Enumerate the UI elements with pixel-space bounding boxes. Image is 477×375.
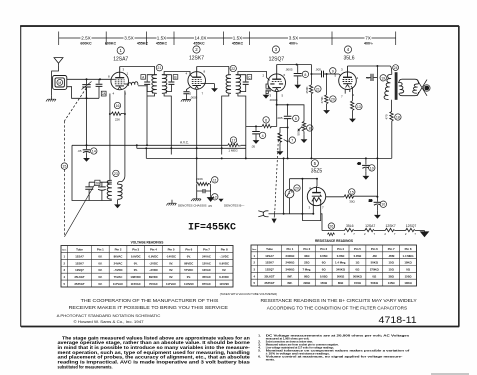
wire tuning bottom — [67, 87, 99, 99]
svg-text:12SA7: 12SA7 — [113, 57, 128, 63]
part circle 16 — [114, 102, 120, 108]
svg-text:10: 10 — [370, 166, 374, 170]
svg-text:12SA7: 12SA7 — [75, 254, 84, 258]
svg-text:4: 4 — [262, 134, 264, 138]
ground arrow volume — [301, 135, 308, 143]
svg-text:© Howard W. Sams & Co., Inc. 1: © Howard W. Sams & Co., Inc. 1947 — [74, 320, 144, 324]
svg-text:0.05Ω: 0.05Ω — [320, 274, 328, 278]
filter capacitor C10 — [357, 158, 369, 171]
part circle 12 — [212, 194, 218, 200]
wire tube1 plate to IF1 — [120, 67, 155, 75]
svg-text:38Ω: 38Ω — [389, 274, 395, 278]
svg-text:15: 15 — [62, 165, 66, 169]
svg-text:12VAC: 12VAC — [202, 268, 211, 272]
wire IF2 secondary to tube3 grid — [238, 72, 267, 78]
tube 12SK7 V2 — [188, 67, 215, 90]
svg-text:0V.: 0V. — [98, 275, 102, 279]
svg-text:Pin 1: Pin 1 — [286, 247, 293, 251]
resistor R15 filter — [326, 196, 344, 198]
svg-text:Pin 8: Pin 8 — [405, 247, 412, 251]
svg-text:1 MEG: 1 MEG — [228, 149, 238, 153]
svg-text:455KC: 455KC — [232, 41, 244, 45]
resistor R17 1meg AVC — [228, 144, 241, 147]
part circle 4 — [259, 132, 265, 138]
svg-text:.02: .02 — [366, 76, 371, 80]
ground arrow cathode — [349, 114, 356, 122]
part label box B — [173, 75, 178, 80]
part circle 15 gang — [61, 163, 67, 169]
svg-text:21: 21 — [157, 66, 161, 70]
wire tube2 heater return — [196, 89, 198, 181]
part label box 2A — [101, 91, 106, 96]
heater 12SQ7 — [406, 228, 425, 231]
svg-text:INF.: INF. — [287, 281, 292, 285]
part circle 13 — [356, 103, 362, 109]
border frame — [21, 26, 459, 326]
svg-text:24VAC: 24VAC — [114, 261, 123, 265]
oscillator variable capacitor C1C — [85, 182, 93, 200]
resistor R18 primary return — [390, 100, 393, 159]
svg-text:0V.: 0V. — [134, 261, 138, 265]
svg-text:B: B — [174, 75, 176, 79]
svg-text:Pin 1: Pin 1 — [97, 247, 104, 251]
svg-text:6.: 6. — [258, 354, 261, 358]
wire IF1 bottoms down — [147, 86, 155, 146]
svg-text:VOLTAGE READINGS: VOLTAGE READINGS — [131, 241, 164, 245]
ground arrow tube2 cathode — [211, 84, 218, 92]
oscillator coil L2 cathode — [128, 82, 147, 86]
svg-text:87VAC: 87VAC — [202, 282, 211, 286]
svg-text:35Z5: 35Z5 — [311, 169, 323, 175]
part circle 18 — [395, 114, 401, 120]
svg-text:0.9VDC: 0.9VDC — [149, 254, 159, 258]
svg-text:RESISTANCE READINGS: RESISTANCE READINGS — [315, 239, 353, 243]
svg-text:455KC: 455KC — [193, 41, 205, 45]
svg-text:2B: 2B — [95, 181, 100, 185]
capacitor C4 grid — [252, 126, 260, 135]
svg-text:340KΩ: 340KΩ — [285, 267, 295, 271]
svg-text:250K: 250K — [305, 86, 309, 93]
part circle 14 — [91, 148, 97, 154]
part label box C — [247, 75, 252, 80]
svg-text:80Ω: 80Ω — [304, 274, 310, 278]
svg-text:2.5X: 2.5X — [81, 36, 90, 41]
part label box A — [141, 75, 146, 80]
svg-text:57VDC: 57VDC — [184, 268, 193, 272]
legend B- symbol — [207, 196, 213, 202]
svg-text:12SK7: 12SK7 — [75, 261, 84, 265]
svg-text:12SQ7: 12SQ7 — [406, 224, 417, 228]
svg-text:20: 20 — [331, 98, 335, 102]
svg-text:600KC: 600KC — [105, 41, 117, 45]
oscillator coil L3 — [107, 180, 122, 199]
svg-text:0.05Ω: 0.05Ω — [320, 254, 328, 258]
svg-text:8: 8 — [304, 73, 306, 77]
svg-text:50KΩ: 50KΩ — [371, 261, 379, 265]
svg-text:12SQ7: 12SQ7 — [265, 267, 274, 271]
svg-text:455KC: 455KC — [156, 41, 168, 45]
svg-text:15Ω: 15Ω — [389, 267, 395, 271]
svg-text:DENOTES B—: DENOTES B— — [224, 204, 244, 208]
legend network R11 220K — [197, 181, 211, 196]
svg-text:150Ω: 150Ω — [405, 274, 413, 278]
filament string wire — [322, 230, 345, 232]
part circle 7 — [307, 125, 313, 131]
svg-text:16: 16 — [116, 104, 120, 108]
wire tube2 plate to IF2 — [197, 67, 229, 75]
svg-text:470: 470 — [385, 114, 389, 119]
svg-text:115VAC: 115VAC — [131, 282, 141, 286]
svg-text:6: 6 — [265, 118, 267, 122]
capacitor C8 .0005 plate bypass — [294, 65, 302, 81]
ground arrow filter cap — [363, 171, 370, 179]
AC plug — [258, 211, 283, 217]
wire tube3 plate line — [277, 64, 312, 66]
B minus arrow end of string — [421, 231, 429, 237]
wire to output grid — [311, 73, 321, 75]
svg-text:14.0X: 14.0X — [194, 36, 206, 41]
svg-text:.005: .005 — [315, 68, 321, 72]
heater 12SK7 — [385, 228, 405, 231]
svg-text:22: 22 — [231, 67, 235, 71]
svg-text:THE COOPERATION OF THE MAN: THE COOPERATION OF THE MANUFACTURER OF T… — [81, 298, 219, 304]
svg-text:(TAKEN WITH VACUUM TUBE VOLTME: (TAKEN WITH VACUUM TUBE VOLTMETER) — [220, 292, 278, 296]
resistance readings table — [251, 245, 417, 286]
IF transformer T1 — [152, 75, 167, 94]
svg-text:340KΩ: 340KΩ — [336, 267, 346, 271]
wire B bus drop left — [283, 158, 285, 213]
svg-text:86VAC: 86VAC — [114, 254, 123, 258]
wire tube3 diode out — [277, 92, 304, 122]
svg-text:22Ω: 22Ω — [304, 261, 310, 265]
wire grid resistor line — [246, 125, 262, 127]
ground arrow tube3 diode — [263, 90, 270, 98]
svg-text:0.9VDC: 0.9VDC — [131, 254, 141, 258]
svg-text:0V.: 0V. — [134, 268, 138, 272]
svg-text:0V.: 0V. — [98, 268, 102, 272]
part circle 17 — [230, 137, 236, 143]
tube callout 4 — [343, 46, 354, 62]
svg-text:Pin 4: Pin 4 — [150, 247, 157, 251]
svg-text:35L6: 35L6 — [343, 56, 354, 62]
svg-text:0V.: 0V. — [98, 254, 102, 258]
B+ bus main — [146, 157, 391, 159]
part circle 6 — [263, 117, 269, 123]
output transformer T3 — [384, 74, 392, 99]
stage gain paragraph — [58, 335, 251, 369]
svg-text:1.5X: 1.5X — [157, 36, 166, 41]
svg-text:Pin 3: Pin 3 — [320, 247, 327, 251]
part circle 22 IF2 — [230, 65, 236, 71]
svg-text:117VAC: 117VAC — [113, 282, 123, 286]
svg-text:Item: Item — [252, 248, 256, 251]
svg-text:Pin 3: Pin 3 — [132, 247, 139, 251]
svg-text:12SA7: 12SA7 — [365, 224, 375, 228]
svg-text:40: 40 — [357, 162, 361, 166]
resistor R13 cathode 150 — [351, 88, 354, 114]
svg-text:ments.: ments. — [266, 358, 275, 362]
ground arrow filter cap 2 — [374, 210, 381, 218]
svg-text:Pin 6: Pin 6 — [371, 247, 378, 251]
svg-text:Tube: Tube — [76, 247, 83, 251]
svg-text:.05: .05 — [208, 204, 213, 208]
svg-text:0V.: 0V. — [98, 282, 102, 286]
tube callout 5 — [311, 160, 323, 175]
svg-text:DENOTES CHASSIS: DENOTES CHASSIS — [178, 204, 207, 208]
svg-text:19: 19 — [381, 76, 385, 80]
svg-text:18: 18 — [396, 116, 400, 120]
svg-text:24VAC: 24VAC — [202, 254, 211, 258]
svg-text:A.V.C.: A.V.C. — [180, 141, 189, 145]
wire antenna lead — [52, 65, 59, 95]
loop antenna L1 — [53, 76, 67, 90]
ground arrow volume pot — [277, 147, 284, 155]
svg-text:IF=455KC: IF=455KC — [188, 223, 236, 234]
part circle 10 — [369, 165, 375, 171]
node tuning junction — [86, 97, 88, 99]
svg-text:8: 8 — [309, 127, 311, 131]
svg-text:0V.: 0V. — [169, 275, 173, 279]
svg-text:.05M: .05M — [388, 254, 395, 258]
svg-text:1.5X: 1.5X — [233, 36, 242, 41]
svg-text:1.4 Meg.: 1.4 Meg. — [335, 261, 346, 265]
svg-text:.005: .005 — [277, 116, 283, 120]
plate load resistor R21 — [309, 65, 312, 159]
part circle 11 — [212, 177, 218, 183]
tube 35Z5 V5 — [307, 186, 325, 206]
svg-text:400∿: 400∿ — [289, 41, 299, 45]
svg-text:12SK7: 12SK7 — [189, 56, 204, 62]
svg-text:32Ω: 32Ω — [304, 254, 310, 258]
svg-text:5: 5 — [295, 117, 297, 121]
svg-text:35Z5GT: 35Z5GT — [264, 281, 275, 285]
svg-text:150Ω: 150Ω — [320, 281, 328, 285]
svg-text:-14VDC: -14VDC — [166, 254, 176, 258]
svg-text:15Ω: 15Ω — [389, 261, 395, 265]
svg-text:35VAC: 35VAC — [202, 275, 211, 279]
capacitor C9 coupling to 35L6 — [322, 71, 340, 78]
wire B+ feed vertical — [376, 66, 378, 198]
svg-text:Pin 5: Pin 5 — [168, 247, 175, 251]
svg-text:6.4VDC: 6.4VDC — [219, 275, 229, 279]
svg-text:86VDC: 86VDC — [184, 261, 193, 265]
svg-text:RECEIVER MAKES IT POSSIBLE TO: RECEIVER MAKES IT POSSIBLE TO BRING YOU … — [69, 305, 229, 311]
svg-text:-.5VDC: -.5VDC — [113, 268, 122, 272]
capacitor C14 osc pad — [83, 145, 91, 153]
part label box 2B — [95, 180, 100, 185]
part circle 8 — [302, 71, 308, 77]
part circle 21 IF1 — [156, 65, 162, 71]
svg-text:A PHOTOFACT STANDARD NOTATIO: A PHOTOFACT STANDARD NOTATION SCHEMATIC — [57, 313, 161, 318]
notes list — [258, 333, 410, 361]
svg-text:0V.: 0V. — [169, 268, 173, 272]
svg-text:17: 17 — [232, 139, 236, 143]
svg-text:10: 10 — [381, 203, 385, 207]
speaker voice coil loop — [399, 79, 418, 95]
antenna — [54, 58, 63, 66]
part circle 20 pilot — [294, 185, 300, 191]
svg-text:ACCORDING TO THE CONDITION: ACCORDING TO THE CONDITION OF THE FILTER… — [267, 305, 408, 311]
svg-text:600KC: 600KC — [80, 41, 92, 45]
svg-text:10KΩ: 10KΩ — [404, 281, 412, 285]
svg-text:24: 24 — [394, 66, 398, 70]
svg-text:22K: 22K — [115, 118, 120, 122]
svg-text:220K: 220K — [196, 177, 203, 181]
svg-text:Pin 8: Pin 8 — [221, 247, 228, 251]
svg-text:3.5X: 3.5X — [289, 36, 298, 41]
svg-text:290Ω: 290Ω — [303, 281, 311, 285]
svg-text:240KΩ: 240KΩ — [285, 261, 295, 265]
svg-text:80Ω: 80Ω — [338, 281, 344, 285]
svg-text:11: 11 — [213, 178, 217, 182]
svg-text:12SQ7: 12SQ7 — [269, 56, 285, 62]
svg-text:12VAC: 12VAC — [202, 261, 211, 265]
svg-text:4718-11: 4718-11 — [379, 315, 417, 325]
svg-text:23: 23 — [114, 172, 118, 176]
svg-text:26: 26 — [329, 225, 333, 229]
voltage readings table — [61, 246, 233, 288]
switch on volume — [275, 140, 279, 211]
svg-text:-.2VDC: -.2VDC — [149, 268, 158, 272]
variable capacitor C1A tuning — [82, 79, 92, 145]
secondary winding — [398, 82, 404, 93]
svg-text:Pin 2: Pin 2 — [115, 247, 122, 251]
svg-text:20: 20 — [369, 199, 373, 203]
svg-text:1.: 1. — [258, 333, 261, 337]
speaker SP — [417, 80, 427, 96]
svg-text:RESISTANCE READINGS IN THE: RESISTANCE READINGS IN THE B+ CIRCUITS M… — [261, 298, 418, 304]
tube callout 2 — [189, 46, 204, 62]
resistor R6 10meg — [262, 124, 272, 127]
capacitor C21 tone — [366, 74, 377, 81]
svg-text:50KΩ: 50KΩ — [337, 274, 345, 278]
part circle 15b — [349, 189, 355, 195]
svg-text:12SK7: 12SK7 — [265, 261, 274, 265]
wire osc verticals — [109, 94, 111, 181]
B- return bus — [137, 147, 246, 149]
part circle 19 — [380, 75, 386, 81]
heater 35L6 — [345, 228, 365, 231]
svg-text:.0005: .0005 — [285, 68, 293, 72]
pilot lamp — [285, 179, 294, 214]
part circle 23 osc coil — [113, 170, 119, 176]
svg-text:.4M: .4M — [372, 254, 377, 258]
svg-text:35L6: 35L6 — [346, 224, 354, 228]
ground arrow plate bypass — [294, 80, 301, 88]
IF2 trimmer right — [236, 75, 249, 94]
svg-text:7: 7 — [291, 139, 293, 143]
part circle 10b — [380, 201, 386, 207]
transformer core — [395, 72, 398, 100]
svg-text:Pin 4: Pin 4 — [337, 247, 344, 251]
svg-text:0V.: 0V. — [98, 261, 102, 265]
svg-text:0.9VDC: 0.9VDC — [219, 261, 229, 265]
svg-text:INF.: INF. — [287, 274, 292, 278]
svg-text:7 Meg.: 7 Meg. — [302, 267, 311, 271]
part circle 24 output transformer — [393, 65, 399, 71]
svg-text:20: 20 — [295, 187, 299, 191]
svg-text:12SA7: 12SA7 — [265, 254, 274, 258]
svg-text:0.05Ω: 0.05Ω — [337, 254, 345, 258]
svg-text:270KΩ: 270KΩ — [370, 267, 380, 271]
svg-text:-.2VDC: -.2VDC — [149, 261, 158, 265]
svg-text:240KΩ: 240KΩ — [285, 254, 295, 258]
svg-text:Pin 5: Pin 5 — [354, 247, 361, 251]
capacitor C5 .005 series — [284, 105, 292, 159]
svg-text:89VDC: 89VDC — [149, 275, 158, 279]
wire tube5 plate top — [290, 179, 318, 187]
dashed gang line diagonal top — [64, 88, 86, 121]
svg-text:30Ω: 30Ω — [349, 199, 355, 203]
svg-text:3.5X: 3.5X — [124, 36, 133, 41]
svg-text:0V.: 0V. — [222, 268, 226, 272]
part circle 26 ballast — [328, 223, 334, 229]
svg-text:117VAC: 117VAC — [166, 282, 176, 286]
svg-text:Pin 2: Pin 2 — [303, 247, 310, 251]
svg-text:455KC: 455KC — [137, 41, 149, 45]
capacitor C3 .0005 tube2 cathode — [183, 87, 190, 96]
legend chassis symbol — [191, 196, 201, 202]
heater 12SA7 — [365, 228, 385, 231]
svg-text:-.1VDC: -.1VDC — [220, 254, 229, 258]
ground arrow C14 — [83, 153, 90, 161]
svg-text:13: 13 — [357, 105, 361, 109]
wire osc coil hook — [118, 182, 122, 185]
svg-text:Tube: Tube — [266, 247, 273, 251]
svg-text:12SK7: 12SK7 — [386, 224, 396, 228]
svg-text:35L6GT: 35L6GT — [74, 275, 85, 279]
part circle 5 — [293, 115, 299, 121]
osc cap gang arrow — [64, 183, 95, 237]
svg-text:substituted for measurements.: substituted for measurements. — [58, 364, 113, 369]
svg-text:115V90: 115V90 — [219, 282, 229, 286]
capacitor C2 .00025 diode — [266, 86, 271, 94]
svg-text:0V.: 0V. — [187, 275, 191, 279]
ground arrow osc coil — [114, 200, 121, 208]
tube callout 3 — [269, 46, 285, 62]
svg-text:Item: Item — [62, 248, 66, 251]
tube 35L6 V4 — [339, 66, 357, 94]
wire IF1 secondary to tube2 grid — [164, 72, 190, 75]
svg-text:108VDC: 108VDC — [130, 275, 141, 279]
stage gain frequency labels — [80, 41, 374, 45]
svg-text:70VAC: 70VAC — [149, 282, 158, 286]
svg-text:Pin 7: Pin 7 — [388, 247, 395, 251]
svg-text:470K: 470K — [320, 96, 324, 103]
wire osc top — [89, 181, 112, 183]
svg-text:15: 15 — [350, 190, 354, 194]
IF transformer T2 — [226, 75, 241, 94]
svg-text:110V90: 110V90 — [184, 282, 194, 286]
stage gain labels — [81, 35, 92, 39]
trimmer capacitor C1B — [96, 79, 103, 88]
svg-text:0V.: 0V. — [169, 261, 173, 265]
filter capacitor C12b — [369, 198, 381, 211]
svg-text:500K: 500K — [297, 128, 301, 135]
tube 12SA7 V1 — [111, 67, 129, 90]
svg-text:.05: .05 — [77, 149, 82, 153]
tube callout 1 — [113, 47, 128, 63]
svg-text:7X: 7X — [365, 36, 371, 41]
IF1 trimmer left — [144, 75, 157, 94]
svg-text:.05: .05 — [251, 144, 256, 148]
wire tube4 plate to output transformer — [348, 66, 392, 74]
dashed gang line vertical — [63, 121, 65, 163]
svg-text:75VAC: 75VAC — [114, 275, 123, 279]
bus junction dots — [287, 157, 289, 159]
svg-text:1.4 MEG: 1.4 MEG — [403, 254, 414, 258]
oscillator padder capacitor — [98, 182, 106, 200]
